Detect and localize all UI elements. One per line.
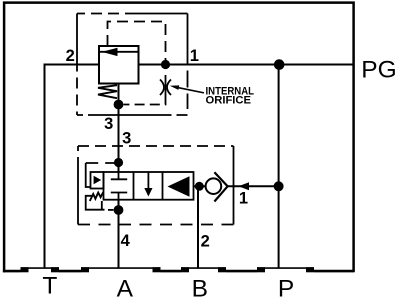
pilot line (dashed) from valve top over to orifice branch bbox=[108, 22, 166, 80]
wire: B line bbox=[197, 186, 199, 268]
pilot operator box bbox=[91, 172, 104, 189]
spring hook dash to A branch bbox=[108, 209, 114, 211]
check valve seat bbox=[214, 172, 227, 201]
orifice vertical segment bbox=[165, 80, 167, 96]
port pad P bbox=[257, 267, 314, 272]
svg-text:3: 3 bbox=[122, 130, 131, 148]
svg-text:1: 1 bbox=[239, 190, 248, 208]
port pad B bbox=[181, 267, 226, 272]
port pad T bbox=[21, 267, 60, 272]
junction node on drain line bbox=[114, 100, 124, 110]
lower valve envelope (dashed box) bbox=[78, 146, 234, 225]
junction node A-pilot bbox=[114, 158, 123, 167]
svg-text:A: A bbox=[117, 275, 134, 302]
svg-text:B: B bbox=[192, 275, 208, 302]
wire: check valve to P line bbox=[228, 185, 279, 187]
bottom border segments between port pads bbox=[3, 270, 354, 273]
wire: T line bbox=[45, 65, 100, 269]
pilot line (dashed) from orifice down and left to drain bbox=[124, 95, 166, 105]
middle section down-arrow bbox=[144, 172, 152, 197]
svg-text:P: P bbox=[278, 275, 294, 302]
wire: A line lower (valve bottom to port A) bbox=[118, 200, 120, 269]
left section blocked-port symbols bbox=[111, 172, 127, 200]
pilot hook line to A branch bbox=[86, 163, 119, 187]
spring (diagonal zigzag) bbox=[90, 192, 103, 201]
spring operator enclosure bbox=[86, 196, 105, 210]
relief valve V1 envelope (dashed box) bbox=[77, 14, 188, 116]
relief valve spring bbox=[98, 85, 117, 98]
flow direction arrow bbox=[239, 182, 250, 190]
junction node A-spring bbox=[114, 205, 124, 215]
svg-text:PG: PG bbox=[361, 56, 396, 83]
svg-text:4: 4 bbox=[121, 232, 131, 250]
right section left-pointing triangle bbox=[168, 176, 190, 196]
wire: valve out to check valve bbox=[194, 185, 206, 187]
directional valve body (3 sections) bbox=[104, 172, 194, 200]
leader arrow to orifice bbox=[170, 85, 204, 93]
svg-text:2: 2 bbox=[201, 233, 210, 251]
wire: A line upper (relief drain to valve top) bbox=[118, 84, 120, 173]
check valve ball bbox=[206, 178, 222, 194]
junction node on main line at P bbox=[274, 59, 285, 70]
wire: main line port2 to PG bbox=[139, 64, 354, 66]
internal orifice symbol bbox=[160, 80, 171, 96]
relief valve body bbox=[99, 46, 139, 84]
spring operator right stub bbox=[101, 201, 103, 210]
port pad A bbox=[81, 267, 161, 272]
svg-text:1: 1 bbox=[190, 47, 199, 65]
svg-text:3: 3 bbox=[104, 115, 113, 133]
svg-text:ORIFICE: ORIFICE bbox=[206, 95, 252, 107]
junction node on main line at pilot tap bbox=[161, 60, 170, 69]
junction node B branch bbox=[195, 182, 204, 191]
junction node on P line at check branch bbox=[274, 181, 284, 191]
pilot operator triangle bbox=[94, 176, 102, 185]
relief valve flow arrow bbox=[99, 48, 139, 56]
svg-text:2: 2 bbox=[66, 47, 75, 65]
outer boundary bbox=[4, 3, 354, 273]
wire: P line bbox=[278, 65, 280, 269]
svg-text:T: T bbox=[42, 272, 57, 299]
